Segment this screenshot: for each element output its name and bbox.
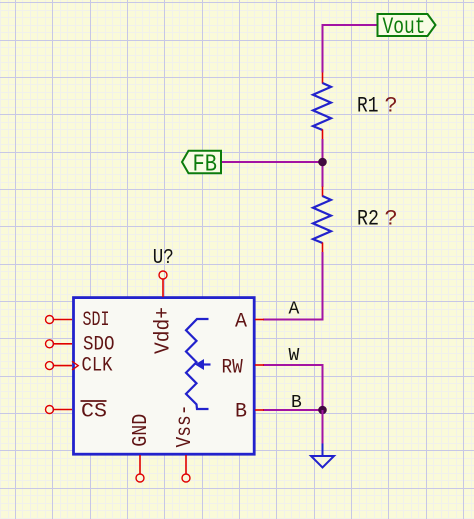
wire R1 to junction <box>322 139 324 187</box>
svg-text:Vdd+: Vdd+ <box>153 307 176 354</box>
IC U? body (digital potentiometer) <box>74 298 255 455</box>
svg-text:GND: GND <box>130 414 153 447</box>
svg-text:RW: RW <box>222 357 243 380</box>
wire B net <box>263 409 323 411</box>
wire junction to ground <box>322 410 324 444</box>
resistor R2 pin bottom <box>322 243 324 253</box>
junction FB node <box>318 158 327 167</box>
svg-text:U?: U? <box>153 247 174 270</box>
pin SDO <box>46 340 73 348</box>
wire W net <box>263 365 323 410</box>
svg-text:A: A <box>235 310 247 333</box>
pin RW right <box>255 364 264 366</box>
svg-text:R1: R1 <box>357 94 379 119</box>
svg-text:CLK: CLK <box>82 355 113 378</box>
resistor R2 body <box>313 196 331 243</box>
pin Vdd top <box>159 271 167 297</box>
wire R2 to A <box>263 252 323 320</box>
svg-text:SDI: SDI <box>83 309 110 332</box>
svg-text:CS: CS <box>81 401 107 424</box>
pin CS <box>46 406 73 414</box>
svg-text:FB: FB <box>193 151 218 178</box>
resistor R1 pin bottom <box>322 130 324 140</box>
svg-text:A: A <box>289 300 300 320</box>
pin CLK <box>46 361 79 370</box>
potentiometer symbol inside U? <box>186 319 209 409</box>
svg-text:Vout: Vout <box>383 14 426 40</box>
port FB <box>182 151 221 179</box>
svg-text:W: W <box>289 346 300 366</box>
wire Vout vertical to R1 <box>322 24 324 73</box>
port Vout <box>378 14 436 40</box>
pin name CS with overline <box>81 401 108 424</box>
resistor R2 pin top <box>322 187 324 197</box>
svg-text:?: ? <box>385 94 398 119</box>
svg-text:B: B <box>291 393 302 413</box>
pin A right <box>255 319 264 321</box>
wire FB horizontal <box>221 161 323 163</box>
pin GND bottom <box>136 455 144 482</box>
potentiometer wiper arrow <box>195 359 211 370</box>
pin Vss bottom <box>182 455 190 482</box>
junction B node <box>318 406 327 415</box>
svg-text:?: ? <box>385 207 398 232</box>
resistor R1 pin top <box>322 73 324 84</box>
pin SDI <box>46 316 73 324</box>
svg-text:SDO: SDO <box>83 334 115 357</box>
svg-text:Vss-: Vss- <box>174 405 197 448</box>
svg-text:R2: R2 <box>357 207 379 232</box>
resistor R1 body <box>313 83 331 130</box>
pin B right <box>255 409 264 411</box>
ground <box>311 444 334 468</box>
svg-text:B: B <box>235 401 247 424</box>
wire Vout horizontal <box>323 24 378 26</box>
